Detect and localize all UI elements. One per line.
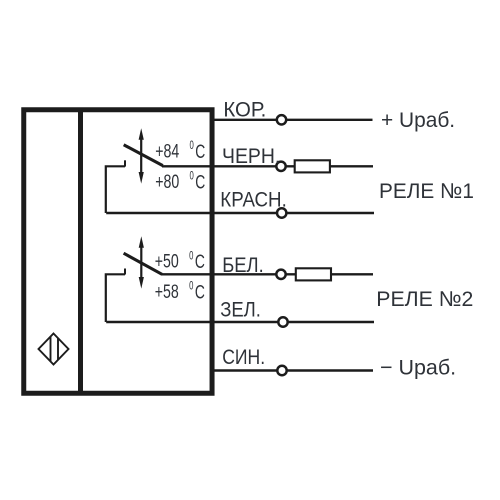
svg-text:C: C [195, 281, 205, 303]
label +58 C [155, 281, 205, 304]
svg-text:КОР.: КОР. [223, 98, 266, 122]
wire SIN row (blue, -U) [212, 369, 373, 371]
terminal circle KRASN [277, 208, 286, 217]
resistor R1 on CHERN wire [295, 160, 330, 172]
svg-text:КРАСН.: КРАСН. [220, 188, 286, 212]
SK1 common wire (L-shape to KRASN row) [106, 166, 125, 213]
terminal circle CHERN [276, 162, 285, 171]
svg-text:+ Uраб.: + Uраб. [381, 108, 455, 132]
svg-text:РЕЛЕ №2: РЕЛЕ №2 [376, 287, 473, 311]
svg-text:+50: +50 [155, 251, 179, 273]
svg-text:C: C [195, 141, 205, 163]
svg-text:СИН.: СИН. [222, 345, 265, 369]
terminal circle KOR [277, 115, 286, 124]
thermal switch SK1 blade [124, 145, 163, 166]
SK1 fixed contact tick [124, 160, 126, 166]
svg-text:0: 0 [189, 281, 193, 293]
terminal circle ZEL [278, 317, 287, 326]
svg-text:РЕЛЕ №1: РЕЛЕ №1 [379, 179, 474, 203]
inductive sensor diamond symbol [39, 334, 69, 365]
svg-text:БЕЛ.: БЕЛ. [222, 253, 264, 277]
SK2 fixed contact tick [124, 269, 126, 275]
svg-text:0: 0 [190, 140, 194, 152]
svg-text:+80: +80 [155, 171, 179, 193]
svg-text:+84: +84 [155, 140, 179, 162]
wire ZEL row (green) [106, 321, 374, 323]
SK2 common wire (L-shape to ZEL row) [106, 274, 125, 322]
svg-text:C: C [195, 251, 205, 273]
svg-text:C: C [195, 171, 205, 193]
label +84 C [155, 140, 205, 163]
terminal circle SIN [277, 366, 286, 375]
svg-text:ЧЕРН.: ЧЕРН. [222, 144, 280, 168]
wire KRASN row (red) [106, 212, 374, 214]
label +50 C [155, 250, 205, 273]
svg-text:0: 0 [189, 250, 193, 262]
device divider line [78, 108, 83, 396]
svg-text:+58: +58 [155, 281, 179, 303]
device body rectangle [24, 110, 212, 394]
resistor R2 on BEL wire [296, 268, 331, 280]
svg-text:0: 0 [190, 171, 194, 183]
terminal circle BEL [276, 270, 285, 279]
label +80 C [155, 171, 205, 194]
svg-text:ЗЕЛ.: ЗЕЛ. [220, 298, 261, 322]
wire BEL row (white, relay2 out) [161, 273, 373, 275]
wire CHERN row (black, relay1 out) [162, 165, 373, 167]
thermal switch SK2 blade [124, 253, 162, 274]
SK2 temperature arrow [139, 236, 144, 288]
svg-text:− Uраб.: − Uраб. [380, 355, 456, 379]
wire KOR row (brown, +U) [212, 119, 373, 121]
SK1 temperature arrow [139, 128, 144, 183]
